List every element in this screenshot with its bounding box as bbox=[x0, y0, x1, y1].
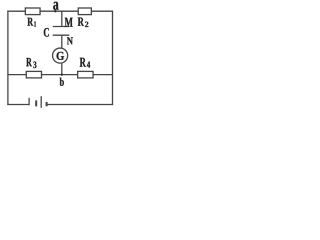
label R3 bbox=[26, 58, 36, 68]
wire node a branch down to capacitor plate M bbox=[61, 11, 63, 26]
wire top rail left segment bbox=[7, 10, 25, 12]
wire top rail middle segment (R1 to R2 through node a) bbox=[40, 10, 78, 12]
wire bottom right segment (battery to right rail) bbox=[47, 104, 113, 106]
wire bottom left segment (to battery) bbox=[7, 104, 28, 106]
wire left rail bbox=[7, 11, 9, 106]
galvanometer G body bbox=[53, 48, 68, 63]
label R2 bbox=[78, 18, 89, 27]
battery cell 2 short plate bbox=[46, 102, 48, 106]
capacitor C bottom plate (N) bbox=[53, 34, 70, 36]
resistor R3 body bbox=[26, 71, 41, 78]
label R4 bbox=[80, 58, 90, 68]
resistor R4 body bbox=[78, 71, 93, 78]
node b junction dot bbox=[61, 74, 63, 76]
battery cell 2 long plate bbox=[40, 96, 42, 108]
wire middle rail center segment (R3 to R4 through node b) bbox=[42, 74, 78, 76]
label C (capacitor) bbox=[44, 28, 49, 37]
label N (capacitor bottom plate) bbox=[67, 37, 73, 44]
label G (galvanometer) bbox=[57, 52, 65, 60]
resistor R1 body bbox=[25, 8, 40, 15]
resistor R2 body bbox=[78, 8, 91, 15]
wire middle rail left segment bbox=[7, 74, 26, 76]
node b label bbox=[60, 78, 64, 86]
battery cell 1 long plate bbox=[28, 98, 30, 106]
node a label bbox=[53, 2, 58, 10]
label R1 bbox=[27, 18, 36, 27]
battery cell 1 short plate bbox=[35, 100, 37, 106]
wire middle rail right segment bbox=[93, 74, 113, 76]
node a junction dot bbox=[54, 10, 56, 12]
wire top rail right segment bbox=[92, 10, 114, 12]
label M (capacitor top plate) bbox=[65, 18, 73, 27]
wire right rail bbox=[112, 11, 114, 106]
wire capacitor plate N to galvanometer bbox=[61, 35, 63, 48]
wire galvanometer to node b bbox=[61, 64, 63, 75]
capacitor C top plate (M) bbox=[53, 26, 70, 28]
